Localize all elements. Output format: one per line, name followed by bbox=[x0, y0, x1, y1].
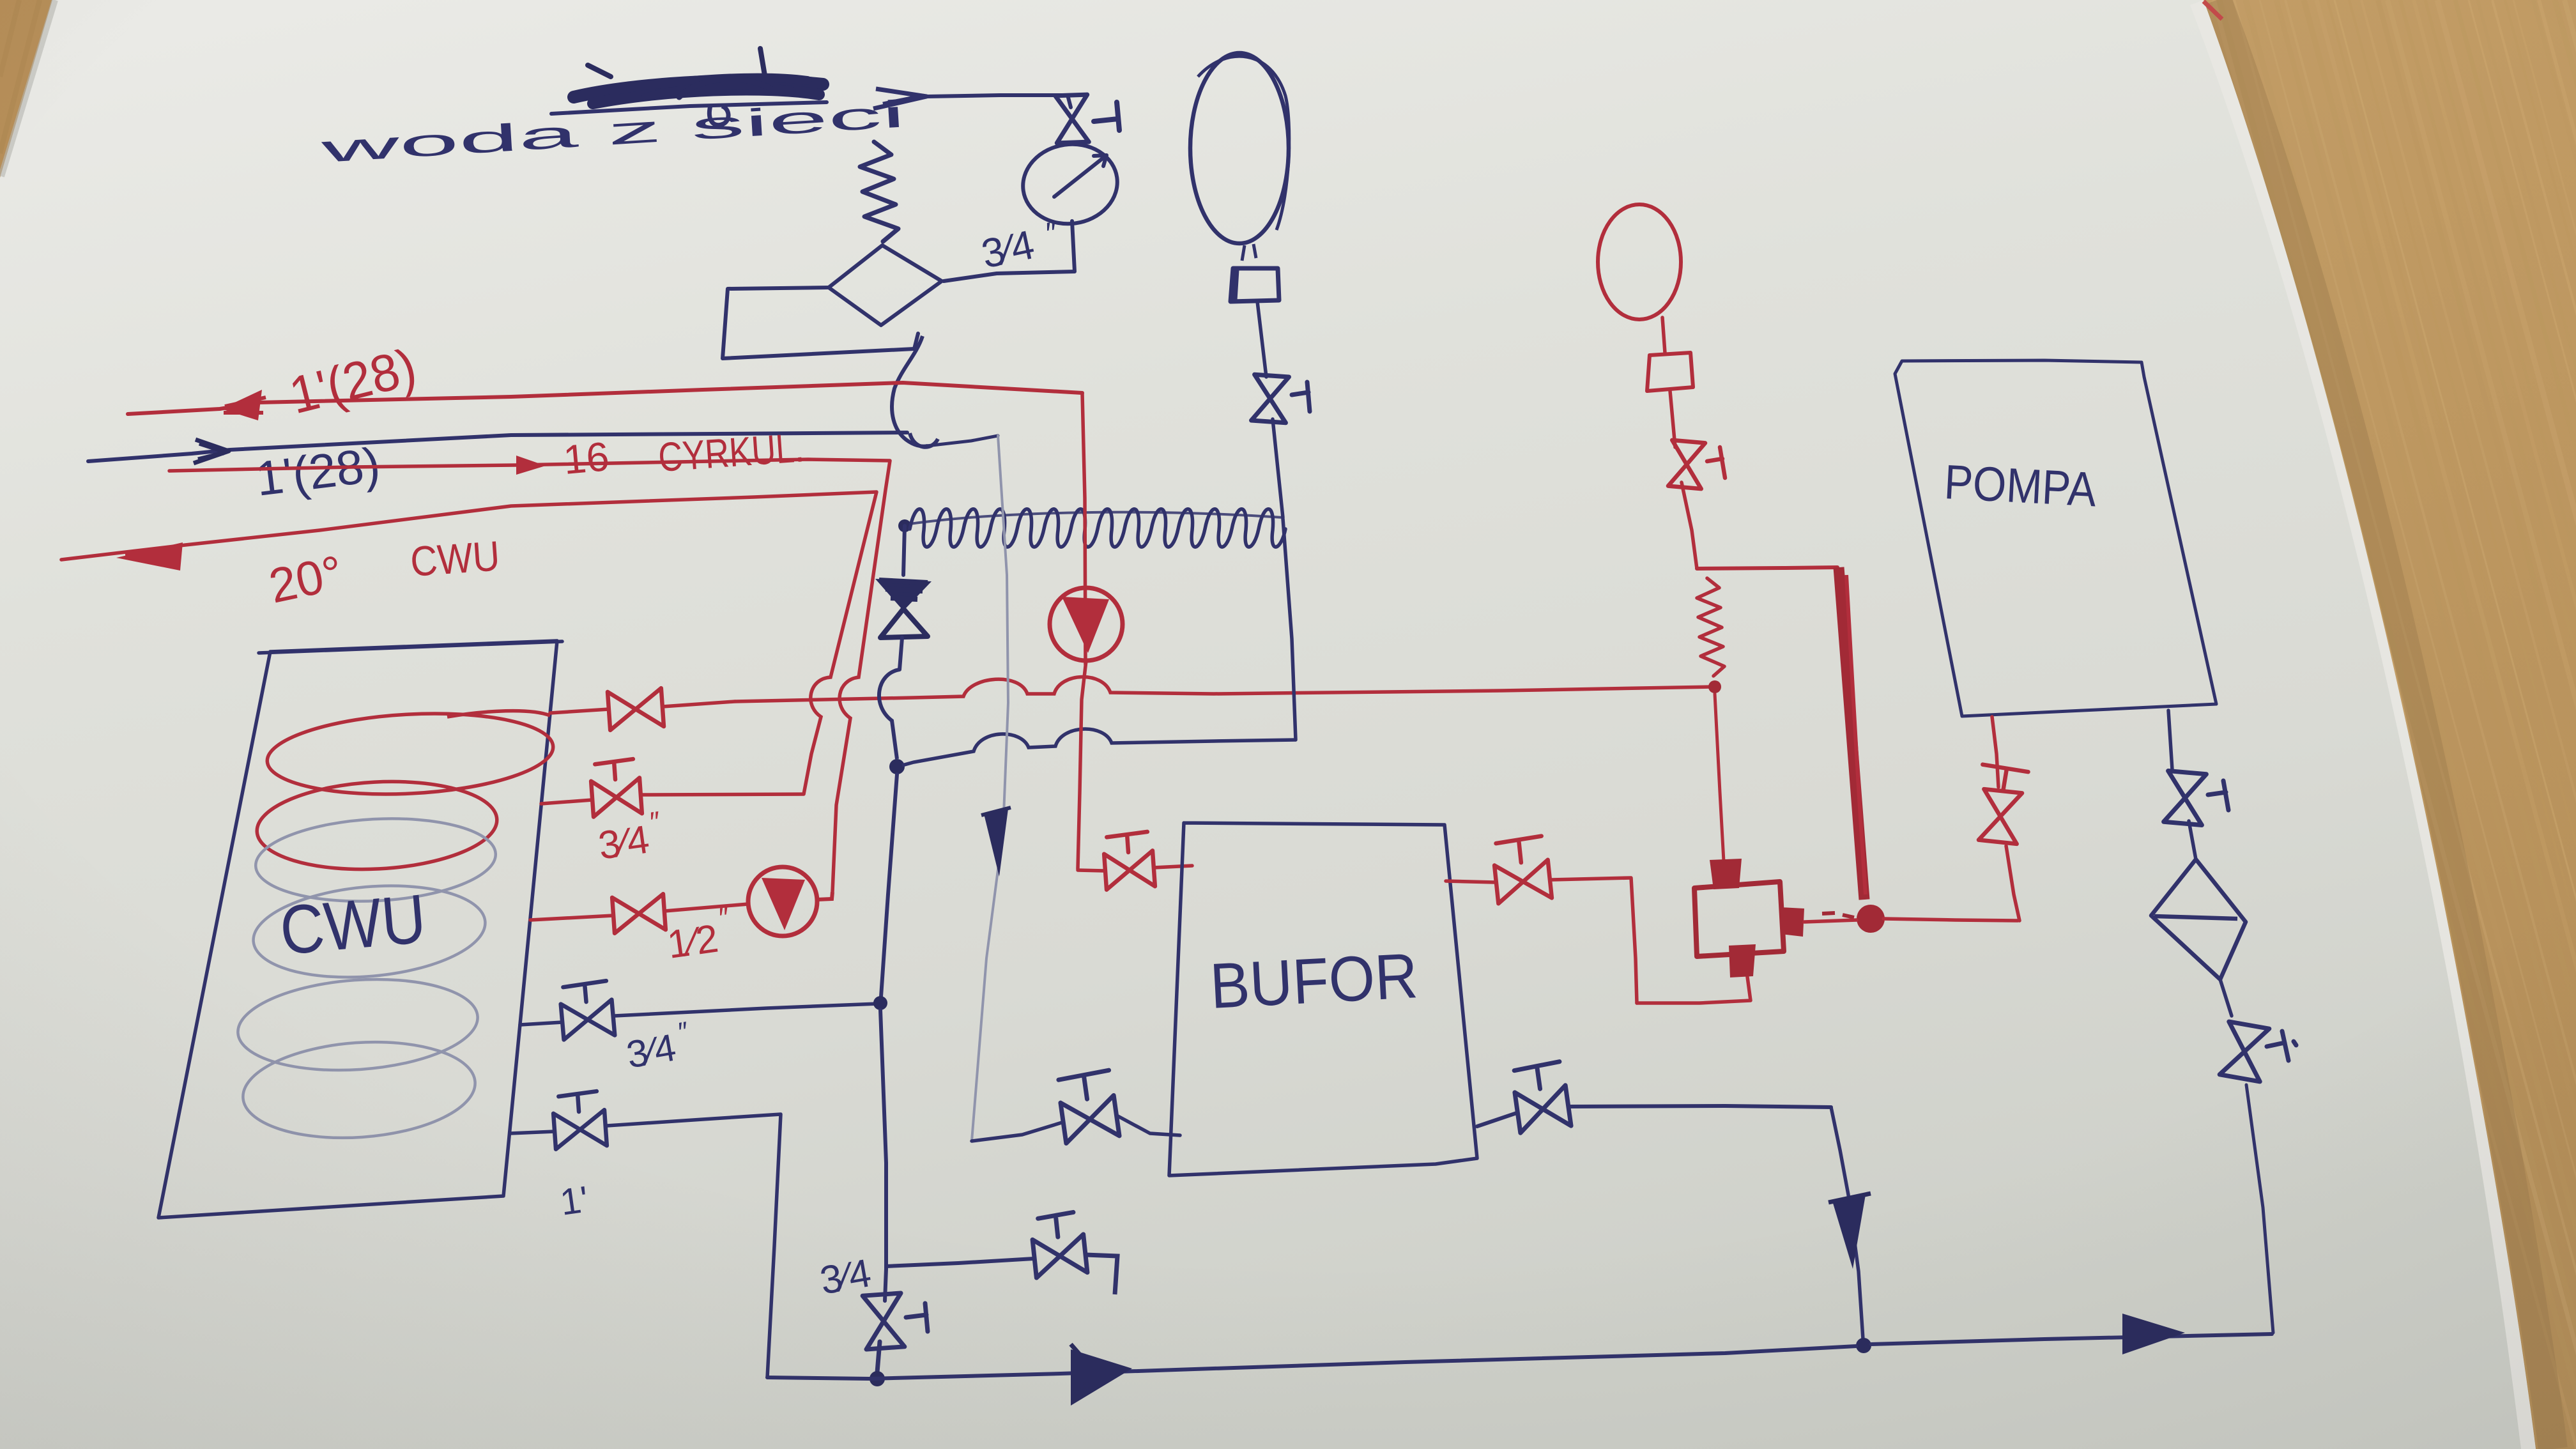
blue line hop over bypass bbox=[910, 433, 938, 447]
pipe POMPA blue down bbox=[2168, 710, 2172, 770]
red pipe to valve V12 bbox=[1078, 870, 1105, 871]
pipe C-bend to right bbox=[926, 436, 998, 446]
red pipe P1 down bbox=[1078, 661, 1086, 869]
red valve V18 with handle bbox=[1975, 765, 2028, 845]
blue valve V10 bbox=[1252, 374, 1289, 423]
pipe tank to valve V2 bbox=[550, 709, 609, 713]
central pump P1 bbox=[1050, 588, 1123, 661]
pipe V17 down to corner bbox=[2246, 1085, 2273, 1333]
pipe HX right side down bbox=[1283, 519, 1296, 740]
blue valve V16 with handle bbox=[2164, 771, 2207, 825]
pipe V9 to node N4 bbox=[877, 1342, 880, 1372]
red cyrkul line bbox=[169, 459, 890, 471]
red vertical to manifold bbox=[1715, 694, 1724, 861]
safety spring above F1 bbox=[860, 142, 898, 241]
faint coil loop a bbox=[254, 813, 498, 907]
blue valve V6 with handle bbox=[552, 1091, 607, 1149]
pipe V4 to pump P2 bbox=[664, 904, 748, 911]
pipe V14 corner down bbox=[1551, 878, 1637, 1003]
bottom pipe east of N5 bbox=[1871, 1334, 2272, 1344]
blue supply line 1in28 bbox=[88, 433, 907, 461]
red coil entry bbox=[447, 711, 550, 717]
pipe V18 down to corner bbox=[2006, 846, 2020, 921]
red cwu line bbox=[61, 492, 877, 560]
manifold right stub bbox=[1780, 907, 1804, 937]
red riser through P1 bbox=[1082, 394, 1085, 664]
red neck box bbox=[1647, 353, 1693, 391]
bypass C-bend bbox=[892, 336, 928, 447]
wood top-left corner bbox=[0, 0, 56, 182]
BUFOR tank outline bbox=[1169, 823, 1477, 1176]
bold valve V7 top (filled) bbox=[875, 579, 931, 611]
red return line 1in28 bbox=[128, 383, 1082, 414]
tap spout loop bbox=[709, 105, 728, 125]
down arrow on faint riser bbox=[984, 809, 1008, 877]
thick red line corner bbox=[1697, 567, 1837, 569]
pipe POMPA red down bbox=[1992, 717, 1998, 787]
manifold top stub bbox=[1710, 859, 1742, 889]
faint coil loop b bbox=[235, 972, 481, 1078]
tap scribble (woda z sieci symbol) bbox=[574, 49, 823, 103]
pipe N1 up join bbox=[903, 526, 905, 575]
pipe V5 to node N3 bbox=[615, 1004, 878, 1016]
valve V10 handle bbox=[1292, 382, 1310, 411]
pipe V16 to filter F2 bbox=[2189, 821, 2196, 859]
valve V9 handle bbox=[906, 1303, 928, 1331]
pipe V12 to BUFOR left bbox=[1154, 866, 1192, 868]
red arrow on cyrkul line bbox=[516, 456, 546, 475]
red cwu drop to tee bbox=[804, 492, 877, 794]
red arrow left on cwu line bbox=[116, 542, 183, 571]
pipe faint riser to BUFOR valve bbox=[972, 1123, 1062, 1141]
tank top edge overdraw bbox=[259, 641, 562, 653]
valve V17 handle bbox=[2267, 1031, 2296, 1061]
bottom pipe arrow A1 bbox=[1071, 1349, 1132, 1406]
pipe V3 to tee bbox=[641, 794, 804, 795]
node N4 bbox=[870, 1371, 885, 1386]
red valve V15 bbox=[1668, 440, 1705, 489]
spring on red riser bbox=[1697, 578, 1724, 676]
red coil loop 2 bbox=[255, 776, 500, 875]
pipe V7 down bbox=[900, 638, 902, 670]
pressure gauge G1 bbox=[1018, 138, 1123, 229]
red valve V2 bbox=[608, 688, 664, 730]
node N3 bbox=[873, 996, 887, 1010]
bottom pipe arrow A2 bbox=[2122, 1314, 2185, 1354]
expansion vessel O1 bbox=[1190, 53, 1289, 243]
pipe BUFOR right stub bbox=[1477, 1113, 1517, 1126]
node N6 red bbox=[1708, 680, 1721, 693]
pipe down to bottom line bbox=[1831, 1107, 1863, 1339]
pipe V11 to BUFOR bbox=[1117, 1115, 1180, 1135]
red main supply line with hops bbox=[735, 677, 1712, 701]
red valve V14 with handle bbox=[1492, 836, 1552, 903]
pipe arrow to valve corner bbox=[928, 95, 1071, 107]
pipe HX bottom with hops bbox=[902, 729, 1296, 765]
pipe V13 to east bbox=[1570, 1106, 1831, 1107]
pipe vessel down bbox=[1257, 302, 1266, 377]
heat exchanger coil bbox=[910, 509, 1285, 547]
node N2 bbox=[889, 759, 905, 774]
pipe F2 down bbox=[2220, 979, 2232, 1016]
valve V16 handle bbox=[2208, 781, 2228, 810]
valve V1 handle bbox=[1094, 102, 1119, 130]
pipe branch to plugged valve bbox=[886, 1259, 1034, 1266]
heat exchanger coil second pass bbox=[910, 512, 1283, 524]
blue arrow on supply line bbox=[194, 440, 229, 463]
bold valve V7 bottom bbox=[880, 609, 928, 638]
ellipse around CWU label bbox=[250, 877, 489, 986]
red dashes to manifold bbox=[1822, 913, 1854, 917]
circulation pump P2 bbox=[748, 867, 817, 936]
blue valve V8 with handle bbox=[1030, 1211, 1087, 1278]
paper top-left edge shadow bbox=[1, 0, 55, 176]
pipe O2 down bbox=[1662, 318, 1665, 353]
pipe V15 down to corner bbox=[1682, 482, 1697, 569]
pipe tank to V3 bbox=[541, 800, 592, 804]
pipe hop over red main bbox=[879, 670, 900, 759]
red coil loop 1 bbox=[265, 707, 555, 801]
node N1 heat exch top bbox=[898, 519, 911, 532]
faint riser pipe bbox=[972, 436, 1008, 1141]
node N5 bbox=[1856, 1338, 1871, 1353]
node N7 red blob bbox=[1857, 905, 1885, 933]
pipe V6 right and down bbox=[607, 1114, 781, 1377]
pipe gauge down and left bbox=[944, 221, 1075, 281]
blue valve V5 with handle bbox=[559, 981, 615, 1040]
POMPA box outline bbox=[1895, 360, 2216, 716]
supply valve V1 bbox=[1055, 95, 1089, 143]
pipe N7 east bbox=[1883, 919, 2018, 921]
arrow to supply valve bbox=[873, 89, 926, 109]
red cyrkul drop to pump bbox=[832, 461, 890, 892]
red valve V12 with handle bbox=[1103, 831, 1155, 889]
blue valve V13 with handle bbox=[1512, 1061, 1571, 1133]
faint coil loop c bbox=[240, 1034, 478, 1145]
pipe under tap bbox=[551, 102, 827, 114]
pipe V8 plug end bbox=[1085, 1255, 1117, 1294]
blue valve V17 bbox=[2219, 1022, 2269, 1082]
red arrow left on return line bbox=[221, 390, 262, 420]
wall box B1 bbox=[723, 287, 918, 358]
pipe tank to V5 bbox=[520, 1022, 562, 1025]
gauge needle bbox=[1054, 155, 1107, 197]
vessel neck box bbox=[1230, 268, 1279, 302]
red valve V4 bbox=[612, 894, 666, 933]
pipe N3 down bbox=[880, 1010, 886, 1269]
paper right edge bright rim bbox=[2190, 0, 2536, 1449]
pipe V2 to main red line bbox=[663, 701, 735, 707]
vessel bottom ticks bbox=[1242, 244, 1256, 261]
mixing manifold body bbox=[1694, 882, 1784, 956]
thick red drop bbox=[1839, 567, 1864, 900]
pipe tank to V6 bbox=[510, 1131, 555, 1133]
red mark on paper top edge bbox=[2204, 1, 2222, 19]
pipe BUFOR to V14 bbox=[1446, 881, 1495, 882]
pipe loop bottom to manifold bbox=[1637, 977, 1751, 1003]
filter diamond F1 bbox=[829, 245, 942, 325]
pipe N2 down to N3 bbox=[881, 774, 897, 997]
wood top-left grain bbox=[0, 0, 40, 153]
blue valve V9 with handle bbox=[862, 1293, 905, 1349]
pipe tank to V4 bbox=[530, 916, 613, 920]
pipe manifold stub to N7 bbox=[1804, 920, 1857, 922]
wood grain streaks bbox=[2187, 0, 2576, 1449]
wood shadow near paper edge bbox=[2217, 0, 2553, 1449]
pipe P2 to riser bbox=[817, 892, 832, 900]
manifold bottom stub bbox=[1729, 944, 1756, 977]
CWU tank outline bbox=[158, 641, 557, 1218]
vessel overdraw stroke bbox=[1198, 56, 1289, 230]
red valve V3 with handle bbox=[590, 758, 642, 816]
valve V15 handle bbox=[1707, 447, 1725, 478]
filter diamond F2 bbox=[2151, 859, 2246, 979]
bottom return pipe bbox=[767, 1346, 1856, 1379]
pipe V10 down to HX bbox=[1273, 419, 1283, 517]
pipe N3 branch down to valve V9 bbox=[885, 1269, 886, 1301]
blue valve V11 with handle bbox=[1057, 1070, 1119, 1144]
down arrow on drop pipe bbox=[1832, 1195, 1866, 1269]
red expansion vessel O2 bbox=[1598, 204, 1681, 319]
pipe box down bbox=[1670, 391, 1675, 447]
